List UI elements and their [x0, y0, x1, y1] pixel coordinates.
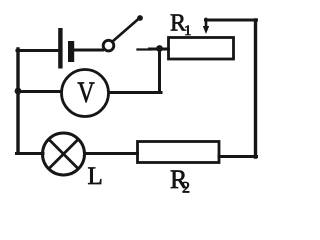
label R1 [170, 11, 192, 40]
wire battery to switch [75, 49, 103, 52]
label L [88, 163, 103, 190]
label R2 [170, 165, 190, 197]
wire top-left horizontal [17, 49, 57, 52]
switch S lever [113, 15, 143, 41]
label V [77, 75, 95, 108]
lamp L [43, 133, 85, 175]
switch S pivot [103, 40, 114, 51]
wire left vertical [16, 49, 19, 153]
svg-text:V: V [77, 75, 95, 108]
wire top-right horizontal [206, 19, 257, 22]
voltmeter V [62, 70, 109, 117]
rheostat R1 body [169, 38, 234, 60]
wire voltmeter right [109, 91, 161, 94]
wire bottom-left horizontal [17, 152, 44, 155]
svg-text:1: 1 [184, 23, 192, 39]
rheostat R1 slider arrow [203, 19, 209, 34]
svg-text:L: L [88, 163, 103, 190]
node A junction dot [156, 45, 163, 52]
wire switch to node A (faint scanned) [138, 48, 153, 50]
wire R2 to right side [219, 155, 257, 158]
wire node A down to voltmeter [158, 49, 161, 93]
wire node A to R1 [150, 48, 169, 51]
wire lamp to R2 [85, 152, 138, 155]
battery [58, 28, 74, 69]
svg-text:2: 2 [182, 180, 190, 197]
wire right vertical [254, 20, 257, 157]
wire voltmeter left [17, 90, 62, 93]
resistor R2 [138, 142, 220, 163]
node B junction dot [15, 88, 22, 95]
